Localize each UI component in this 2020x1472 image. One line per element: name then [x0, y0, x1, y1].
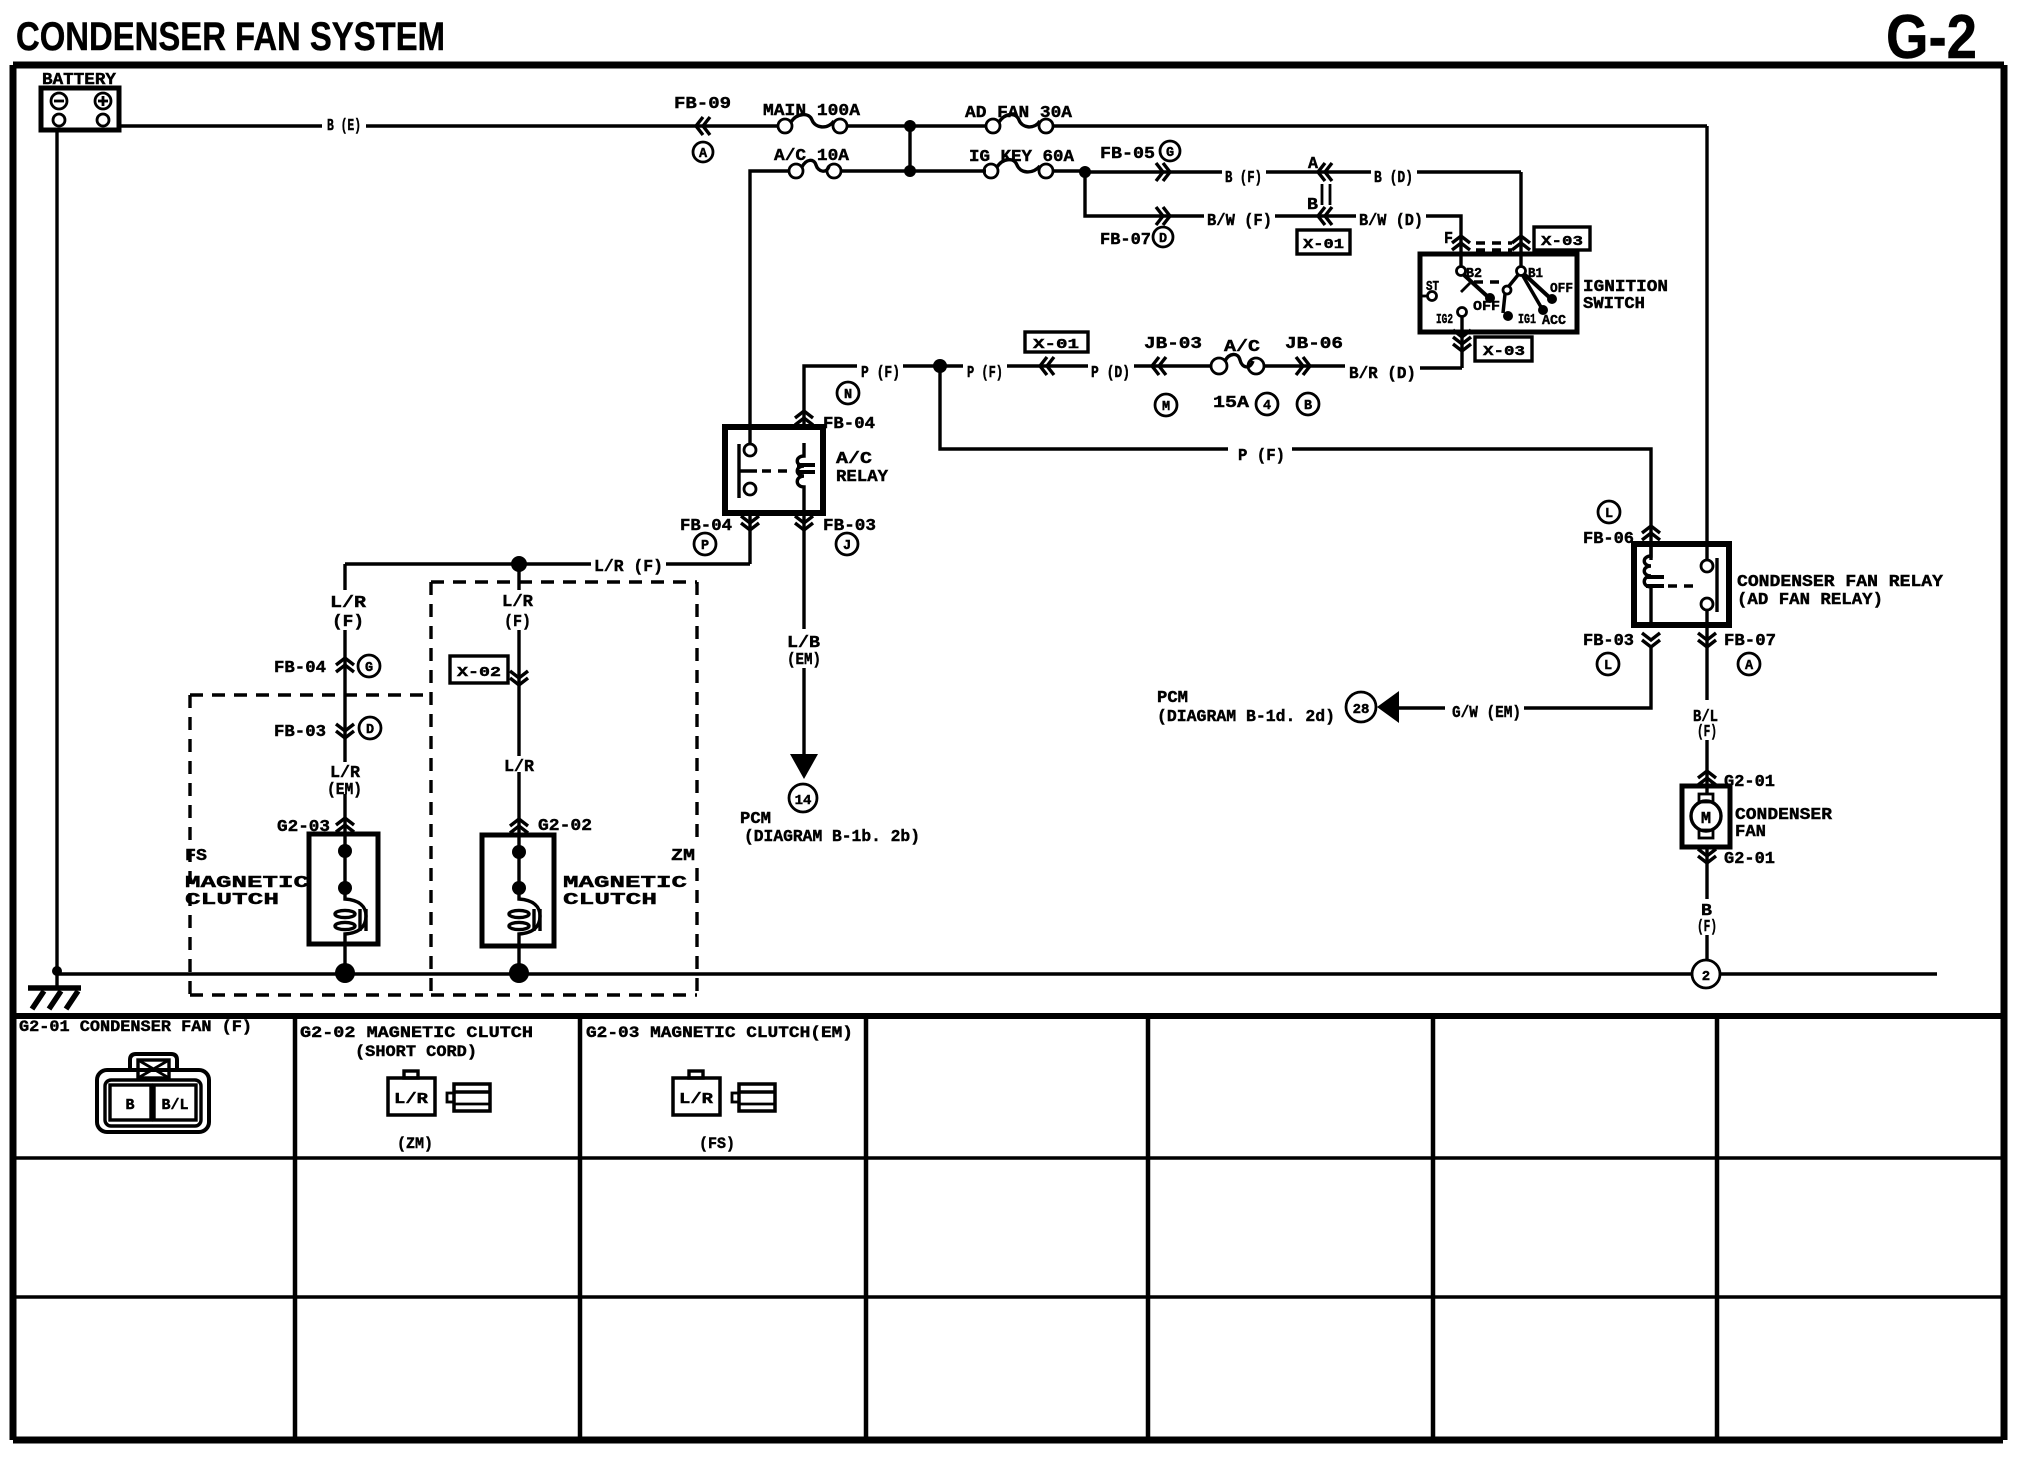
svg-text:G: G	[1166, 146, 1174, 161]
connector JB-06	[1296, 357, 1310, 375]
svg-text:FB-04: FB-04	[274, 659, 326, 678]
connector view G2-02	[388, 1071, 490, 1115]
svg-text:L/R: L/R	[394, 1091, 428, 1108]
connector A X-01	[1318, 163, 1332, 181]
svg-text:L/R: L/R	[679, 1091, 713, 1108]
ignition switch box	[1420, 254, 1577, 332]
connector X-03 bottom chevron	[1453, 330, 1471, 351]
svg-text:(ZM): (ZM)	[397, 1135, 433, 1153]
connector box X-02	[450, 656, 508, 683]
svg-text:2: 2	[1702, 969, 1710, 985]
wire junction down	[908, 126, 911, 171]
ignition switch internals	[1420, 267, 1549, 317]
circle P (FB-04)	[694, 533, 716, 555]
table column dividers	[295, 1016, 1717, 1440]
wire motor top	[1705, 786, 1708, 794]
svg-text:B/W (D): B/W (D)	[1359, 212, 1423, 231]
svg-text:X-02: X-02	[457, 665, 501, 681]
svg-text:L: L	[1604, 659, 1612, 674]
table top border	[13, 1013, 2003, 1019]
svg-text:A: A	[1745, 659, 1754, 674]
junction after IG KEY	[1079, 166, 1091, 178]
svg-text:AD FAN 30A: AD FAN 30A	[965, 104, 1073, 123]
battery	[41, 88, 119, 130]
svg-text:4: 4	[1263, 399, 1271, 414]
svg-text:ACC: ACC	[1542, 314, 1566, 329]
A/C relay coil	[797, 443, 815, 513]
svg-text:B: B	[1304, 399, 1312, 414]
condenser fan relay box	[1634, 544, 1729, 625]
svg-text:FB-03: FB-03	[274, 723, 326, 742]
connector FB-03 bottom right	[802, 513, 805, 754]
svg-text:A/C 10A: A/C 10A	[774, 147, 850, 166]
svg-text:PCM: PCM	[740, 810, 771, 829]
svg-text:A: A	[1308, 155, 1319, 174]
A/C relay box	[725, 427, 823, 513]
circle B (JB-06)	[1297, 393, 1319, 415]
svg-text:L: L	[1605, 507, 1613, 522]
svg-text:JB-03: JB-03	[1144, 335, 1202, 354]
svg-text:FB-04: FB-04	[823, 415, 875, 434]
svg-text:OFF: OFF	[1473, 300, 1500, 315]
svg-text:SWITCH: SWITCH	[1583, 295, 1645, 314]
svg-text:FS: FS	[185, 847, 207, 866]
arrow to PCM 28	[1377, 691, 1399, 723]
svg-text:B/L: B/L	[161, 1097, 188, 1114]
wire P(F) row	[804, 366, 1345, 427]
wire AD FAN feed down to relay contact	[1705, 126, 1708, 560]
svg-text:B: B	[125, 1097, 134, 1114]
svg-text:FB-09: FB-09	[674, 95, 731, 114]
svg-text:(AD FAN RELAY): (AD FAN RELAY)	[1737, 591, 1883, 610]
dashed box FS	[190, 695, 429, 995]
svg-text:FB-07: FB-07	[1100, 231, 1151, 250]
svg-text:P: P	[701, 539, 709, 554]
fuse IG KEY 60A	[984, 160, 1053, 178]
svg-text:B/W (F): B/W (F)	[1207, 212, 1272, 231]
circle G (FB-05)	[1160, 141, 1180, 161]
junction L/R(F)	[511, 556, 527, 572]
connector G2-02	[510, 819, 528, 833]
connector view G2-03	[673, 1071, 775, 1115]
svg-text:P (F): P (F)	[1238, 447, 1285, 466]
svg-text:D: D	[1159, 232, 1167, 247]
A/C relay contacts	[739, 444, 790, 498]
table row line 1	[13, 1156, 2003, 1159]
ground symbol	[28, 974, 81, 1009]
svg-text:G2-01 CONDENSER FAN (F): G2-01 CONDENSER FAN (F)	[19, 1018, 252, 1036]
svg-text:(F): (F)	[332, 613, 364, 632]
svg-text:CLUTCH: CLUTCH	[185, 891, 279, 910]
svg-text:RELAY: RELAY	[836, 468, 889, 487]
svg-text:CLUTCH: CLUTCH	[563, 891, 657, 910]
condenser fan motor box	[1682, 786, 1730, 847]
svg-text:FAN: FAN	[1735, 823, 1766, 842]
svg-text:M: M	[1701, 810, 1711, 829]
table row line 2	[13, 1295, 2003, 1298]
svg-text:L/R: L/R	[502, 593, 534, 612]
svg-text:B (F): B (F)	[1225, 169, 1262, 188]
table bottom border	[13, 1437, 2003, 1444]
connector FB-06	[1642, 526, 1660, 540]
fuse A/C 10A	[789, 160, 841, 178]
svg-text:X-01: X-01	[1303, 237, 1344, 253]
circle J (FB-03)	[836, 533, 858, 555]
svg-text:D: D	[366, 723, 374, 738]
connector FB-03 (D)	[336, 724, 354, 738]
motor M	[1691, 794, 1721, 838]
svg-text:A/C: A/C	[836, 450, 872, 469]
connector FB-07 (A)	[1705, 610, 1708, 786]
wire G/W(EM)	[1399, 647, 1651, 708]
connector JB-03	[1152, 357, 1166, 375]
svg-text:CONDENSER FAN RELAY: CONDENSER FAN RELAY	[1737, 573, 1944, 592]
connector FB-04 bottom left	[748, 513, 751, 564]
svg-text:FB-06: FB-06	[1583, 530, 1634, 549]
svg-text:B2: B2	[1466, 267, 1482, 282]
wire IG2 down	[1420, 316, 1462, 368]
connector FB-04 (G)	[336, 658, 354, 672]
svg-text:P (F): P (F)	[967, 364, 1003, 383]
svg-text:N: N	[844, 388, 852, 403]
connector FB-09	[696, 117, 710, 135]
svg-text:(F): (F)	[1697, 723, 1717, 742]
svg-text:ST: ST	[1426, 280, 1439, 295]
condenser fan relay contacts	[1668, 558, 1717, 612]
circle L (FB-06)	[1598, 501, 1620, 523]
svg-text:J: J	[843, 539, 851, 554]
connector B X-01	[1318, 207, 1332, 225]
circle M (JB-03)	[1155, 394, 1177, 416]
magnetic clutch ZM box	[482, 835, 554, 946]
junction main/adfan	[904, 120, 916, 132]
arrow to PCM 14	[790, 754, 818, 779]
svg-text:(SHORT CORD): (SHORT CORD)	[355, 1043, 477, 1061]
svg-text:IG2: IG2	[1436, 313, 1453, 328]
svg-text:OFF: OFF	[1550, 282, 1573, 297]
connector F X-03	[1452, 236, 1470, 250]
connector box X-03 top	[1534, 227, 1590, 250]
svg-text:B (D): B (D)	[1374, 169, 1413, 188]
connector FB-05	[1156, 163, 1170, 181]
svg-text:(FS): (FS)	[699, 1135, 735, 1153]
wire B(E)	[119, 124, 1707, 127]
connector G2-01 bottom	[1705, 847, 1708, 960]
fuse A/C 15A	[1211, 354, 1264, 374]
connector box X-01	[1297, 230, 1350, 254]
svg-text:X-01: X-01	[1033, 337, 1079, 353]
svg-text:FB-07: FB-07	[1724, 632, 1776, 651]
junction ac/igkey	[904, 165, 916, 177]
connector X-02 chevron	[510, 671, 528, 685]
svg-text:A/C: A/C	[1224, 338, 1260, 357]
svg-text:JB-06: JB-06	[1285, 335, 1343, 354]
svg-text:G2-03 MAGNETIC CLUTCH(EM): G2-03 MAGNETIC CLUTCH(EM)	[586, 1024, 853, 1042]
fuse MAIN 100A	[778, 115, 847, 133]
svg-text:F: F	[1444, 230, 1453, 249]
svg-text:(EM): (EM)	[787, 651, 821, 670]
connector X-03 right chevron	[1512, 236, 1530, 250]
circle 4 (A/C fuse)	[1256, 393, 1278, 415]
svg-text:A: A	[699, 147, 708, 162]
svg-text:B/R (D): B/R (D)	[1349, 365, 1416, 384]
svg-text:FB-05: FB-05	[1100, 145, 1155, 164]
X-01 connector tails	[1322, 184, 1330, 205]
circle A (FB-09)	[693, 142, 713, 162]
svg-text:(EM): (EM)	[327, 781, 362, 800]
junction clutch EM ground	[335, 963, 355, 983]
svg-text:G/W (EM): G/W (EM)	[1452, 704, 1521, 723]
wire clutch ZM branch	[517, 564, 520, 835]
svg-text:G: G	[365, 661, 373, 676]
wire A/C 10A feed	[750, 171, 1085, 427]
svg-text:(DIAGRAM B-1b. 2b): (DIAGRAM B-1b. 2b)	[744, 828, 920, 847]
svg-text:G2-01: G2-01	[1724, 850, 1775, 869]
wire B(F) row	[1085, 170, 1521, 173]
junction P(F)	[933, 359, 947, 373]
svg-text:(F): (F)	[504, 613, 531, 632]
magnetic clutch EM internals	[335, 834, 366, 972]
connector view G2-01	[97, 1054, 209, 1132]
svg-text:G2-02 MAGNETIC CLUTCH: G2-02 MAGNETIC CLUTCH	[300, 1024, 533, 1042]
circle L (FB-03)	[1597, 653, 1619, 675]
svg-text:P (D): P (D)	[1091, 364, 1130, 383]
wire A/C relay upper contact	[748, 427, 751, 444]
X-03 linkage dashes	[1476, 243, 1512, 250]
fuse AD FAN 30A	[986, 115, 1053, 133]
circle N (FB-04)	[837, 382, 859, 404]
connector X-01 chevron P row	[1040, 357, 1054, 375]
svg-text:MAIN 100A: MAIN 100A	[763, 102, 861, 121]
wire P(F) long run	[940, 366, 1651, 560]
svg-text:B: B	[1307, 196, 1318, 215]
circle A (FB-07)	[1738, 653, 1760, 675]
svg-text:ZM: ZM	[671, 847, 695, 866]
circle 14 (PCM)	[789, 784, 817, 812]
junction battery ground	[52, 966, 62, 976]
svg-text:L/R (F): L/R (F)	[594, 558, 663, 577]
svg-text:X-03: X-03	[1541, 234, 1583, 250]
circle 2 (ground)	[1692, 960, 1720, 988]
svg-text:(DIAGRAM B-1d. 2d): (DIAGRAM B-1d. 2d)	[1157, 708, 1335, 727]
svg-text:X-03: X-03	[1483, 344, 1525, 360]
wire L/R(F) row	[345, 562, 750, 565]
circle 28 (PCM)	[1346, 692, 1376, 722]
wire clutch EM branch	[343, 564, 346, 834]
wire B(D) down to ignition switch	[1519, 172, 1522, 267]
svg-text:IG1: IG1	[1518, 313, 1536, 328]
connector box X-03 bottom	[1475, 337, 1532, 361]
dashed box ZM	[431, 582, 697, 995]
connector G2-01 top	[1698, 771, 1716, 785]
condenser fan relay coil	[1644, 544, 1664, 625]
svg-text:PCM: PCM	[1157, 689, 1188, 708]
svg-text:CONDENSER FAN SYSTEM: CONDENSER FAN SYSTEM	[16, 15, 445, 59]
svg-text:B1: B1	[1528, 267, 1543, 282]
svg-text:B (E): B (E)	[327, 117, 361, 136]
circle D (FB-07)	[1153, 227, 1173, 247]
svg-text:L/R: L/R	[330, 594, 367, 613]
connector FB-07	[1156, 207, 1170, 225]
magnetic clutch ZM internals	[509, 835, 540, 972]
ignition switch contact dots	[1485, 293, 1495, 303]
svg-text:L/R: L/R	[504, 758, 535, 777]
circle G (FB-04)	[358, 655, 380, 677]
junction clutch ZM ground	[509, 963, 529, 983]
connector box X-01 P row	[1025, 332, 1088, 353]
svg-text:P (F): P (F)	[861, 364, 900, 383]
circle D (FB-03)	[359, 717, 381, 739]
svg-text:M: M	[1162, 400, 1170, 415]
svg-text:IG KEY 60A: IG KEY 60A	[969, 148, 1075, 167]
svg-text:28: 28	[1353, 702, 1370, 718]
ground bus wire	[57, 972, 1937, 975]
connector FB-03 (L)	[1642, 633, 1660, 647]
wire B/W row	[1085, 172, 1461, 267]
magnetic clutch EM box	[309, 834, 378, 944]
wire battery negative to ground bus	[55, 130, 58, 974]
connector FB-04 top	[795, 411, 813, 425]
svg-text:FB-03: FB-03	[1583, 632, 1634, 651]
svg-text:(F): (F)	[1697, 918, 1717, 937]
connector G2-03	[336, 818, 354, 832]
svg-text:15A: 15A	[1213, 394, 1250, 413]
svg-text:14: 14	[795, 793, 812, 809]
